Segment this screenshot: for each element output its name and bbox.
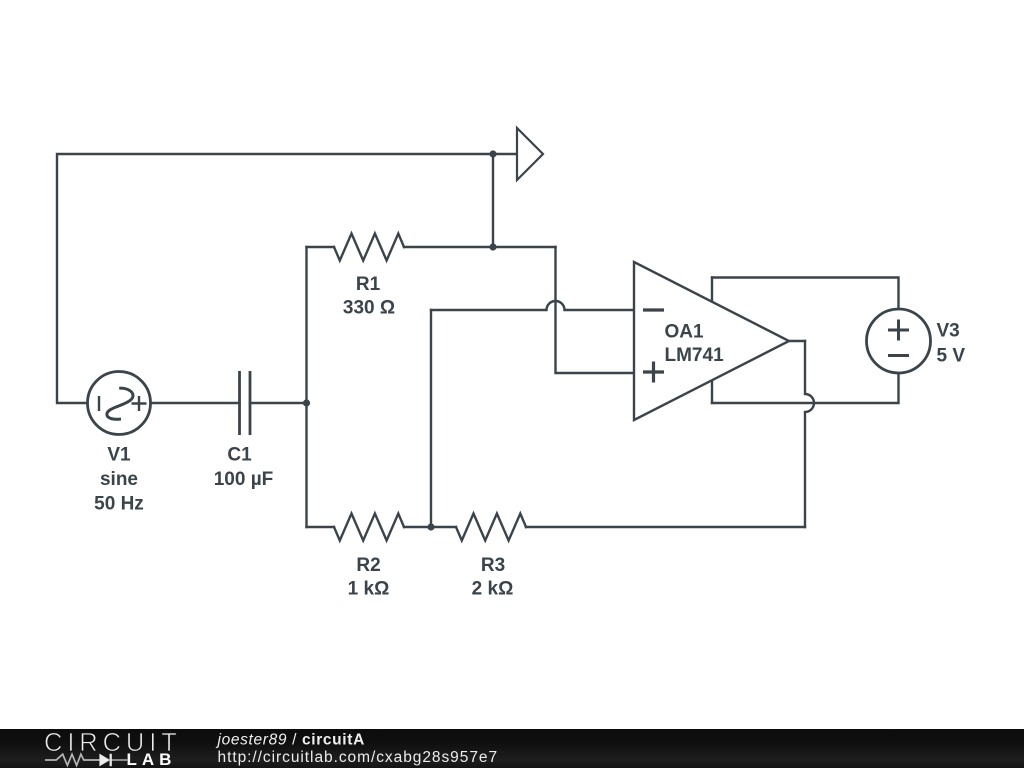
voltage source V1 circle — [88, 372, 151, 435]
op-amp OA1 triangle — [634, 262, 789, 420]
wire V3 bottom net — [712, 373, 899, 403]
node A junction dot C1 — [303, 399, 310, 406]
svg-text:5 V: 5 V — [937, 346, 966, 367]
svg-text:R3: R3 — [481, 555, 505, 576]
wire junction to output terminal — [492, 154, 494, 247]
resistor R3 — [456, 514, 526, 541]
logo diode triangle — [99, 754, 110, 767]
V1 plus mark — [132, 396, 147, 411]
resistor R1 — [334, 234, 404, 261]
node junction dot R2/R3 — [427, 523, 434, 530]
V1 sine glyph — [107, 388, 133, 419]
svg-text:joester89 / circuitA: joester89 / circuitA — [216, 732, 365, 749]
resistor R2 — [334, 514, 404, 541]
wire R3 left lead — [431, 526, 456, 528]
svg-text:1 kΩ: 1 kΩ — [348, 579, 390, 600]
wire minus input down to R2/R3 node — [430, 310, 432, 527]
V3 minus mark — [888, 354, 909, 357]
V1 minus mark — [98, 396, 100, 411]
wire to op-amp plus input — [556, 247, 635, 373]
svg-text:http://circuitlab.com/cxabg28s: http://circuitlab.com/cxabg28s957e7 — [218, 749, 499, 766]
wire top net from V1- to output terminal — [57, 154, 517, 403]
node junction dot R1 — [489, 243, 496, 250]
wire op-amp V+ stub — [711, 278, 713, 311]
wire to op-amp minus input with hop — [431, 301, 634, 310]
node junction dot top — [489, 150, 496, 157]
svg-text:C1: C1 — [227, 445, 252, 466]
wire R1 right lead to op-amp column — [404, 246, 556, 248]
wire V1 to C1 — [151, 402, 240, 404]
svg-text:V1: V1 — [107, 445, 131, 466]
svg-text:LM741: LM741 — [665, 345, 725, 366]
wire R3 right lead to feedback — [526, 526, 805, 528]
svg-text:LAB: LAB — [127, 750, 177, 768]
wire R2 left lead — [307, 526, 335, 528]
svg-text:50 Hz: 50 Hz — [94, 494, 144, 515]
op-amp minus input symbol — [643, 308, 664, 311]
wire V3 top net — [712, 278, 899, 310]
footer bar — [0, 729, 1024, 768]
svg-text:OA1: OA1 — [665, 322, 705, 343]
logo diode lead line — [111, 759, 127, 761]
wire output down with hop over V3 bottom wire — [805, 341, 814, 527]
svg-text:2 kΩ: 2 kΩ — [472, 579, 514, 600]
svg-text:V3: V3 — [937, 321, 960, 342]
wire op-amp V- stub — [711, 380, 713, 403]
capacitor C1 plates — [240, 371, 251, 435]
svg-text:R2: R2 — [356, 555, 380, 576]
svg-text:100 µF: 100 µF — [214, 469, 274, 490]
svg-text:R1: R1 — [356, 274, 381, 295]
svg-text:330 Ω: 330 Ω — [343, 298, 395, 319]
logo diode cathode bar — [110, 754, 112, 766]
wire C1 to node A — [250, 402, 307, 404]
wire op-amp output — [789, 340, 805, 342]
svg-text:sine: sine — [100, 469, 138, 490]
output terminal — [517, 128, 543, 180]
V3 plus mark — [888, 320, 909, 341]
wire vertical node A column — [305, 247, 307, 527]
op-amp plus input symbol — [643, 362, 664, 383]
voltage source V3 circle — [867, 309, 931, 373]
wire R1 left lead — [307, 246, 335, 248]
wire R2 right lead — [404, 526, 431, 528]
logo resistor zigzag — [45, 754, 99, 765]
